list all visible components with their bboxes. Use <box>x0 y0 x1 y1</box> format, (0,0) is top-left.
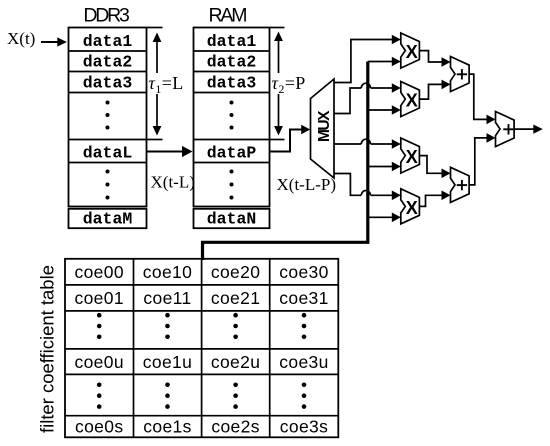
svg-text:MUX: MUX <box>316 110 333 142</box>
svg-text:dataM: dataM <box>83 209 133 228</box>
svg-text:τ1=L: τ1=L <box>149 73 184 96</box>
svg-text:data2: data2 <box>83 53 133 72</box>
svg-text:coe21: coe21 <box>211 288 260 308</box>
svg-text:coe2u: coe2u <box>211 352 260 372</box>
svg-text:coe00: coe00 <box>74 262 123 282</box>
svg-text:data1: data1 <box>207 32 257 51</box>
svg-text:coe1s: coe1s <box>143 417 191 437</box>
svg-text:coe0s: coe0s <box>75 417 123 437</box>
svg-text:X(t-L): X(t-L) <box>151 173 195 192</box>
svg-text:dataN: dataN <box>207 209 257 228</box>
svg-text:τ2=P: τ2=P <box>272 73 306 96</box>
svg-text:coe3u: coe3u <box>279 352 328 372</box>
svg-text:data3: data3 <box>207 74 257 93</box>
svg-text:coe31: coe31 <box>279 288 328 308</box>
svg-text:RAM: RAM <box>209 4 248 26</box>
svg-text:coe11: coe11 <box>143 288 191 308</box>
svg-text:coe30: coe30 <box>279 262 328 282</box>
svg-text:dataL: dataL <box>83 144 133 163</box>
svg-text:coe0u: coe0u <box>74 352 123 372</box>
svg-text:X(t-L-P): X(t-L-P) <box>277 175 336 194</box>
svg-text:coe3s: coe3s <box>280 417 328 437</box>
svg-text:X: X <box>406 91 418 111</box>
svg-text:X(t): X(t) <box>7 29 35 48</box>
svg-text:DDR3: DDR3 <box>83 4 130 26</box>
svg-text:coe01: coe01 <box>74 288 123 308</box>
svg-text:X: X <box>406 147 418 167</box>
svg-text:data1: data1 <box>83 32 133 51</box>
svg-text:data2: data2 <box>207 53 257 72</box>
svg-text:data3: data3 <box>83 74 133 93</box>
svg-text:coe1u: coe1u <box>143 352 192 372</box>
svg-text:X: X <box>406 42 418 62</box>
svg-text:coe10: coe10 <box>143 262 192 282</box>
svg-text:filter coefficient table: filter coefficient table <box>37 265 58 433</box>
svg-text:coe20: coe20 <box>211 262 260 282</box>
svg-text:X: X <box>406 198 418 218</box>
svg-text:coe2s: coe2s <box>211 417 259 437</box>
svg-text:dataP: dataP <box>207 144 257 163</box>
